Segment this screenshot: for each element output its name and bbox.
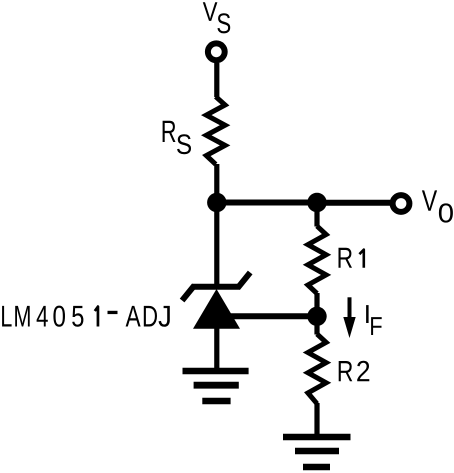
zener D1 cathode bar xyxy=(192,284,240,290)
resistor RS xyxy=(206,97,225,165)
wire VS to RS xyxy=(214,63,219,97)
current arrow IF xyxy=(343,297,355,338)
terminal VO xyxy=(393,195,410,212)
resistor R1 xyxy=(308,226,326,293)
wire zener anode to ground xyxy=(214,328,219,371)
ground (left) xyxy=(183,371,249,401)
label LM4051-ADJ xyxy=(2,306,170,327)
label R2 xyxy=(339,361,370,382)
wire node B to R1 xyxy=(314,203,319,227)
ground (right) xyxy=(283,437,351,467)
label VO xyxy=(422,190,453,222)
resistor R2 xyxy=(308,334,326,404)
wire node A to node B xyxy=(217,200,317,206)
zener D1 right wing xyxy=(240,275,249,286)
wire RS to node A xyxy=(214,164,219,203)
zener D1 left wing xyxy=(184,288,193,299)
label IF xyxy=(366,305,382,335)
node B xyxy=(307,193,326,212)
wire node C to R2 xyxy=(314,316,319,334)
adj line to node C xyxy=(222,313,317,319)
label VS xyxy=(203,2,230,33)
node C xyxy=(307,307,326,326)
zener D1 triangle (anode) xyxy=(193,289,240,329)
wire node A to zener cathode xyxy=(214,203,219,287)
wire R1 to node C xyxy=(314,293,319,316)
terminal VS xyxy=(208,43,225,60)
label R1 xyxy=(339,248,364,268)
label RS xyxy=(163,121,191,155)
node A xyxy=(207,193,226,212)
wire node B to VO terminal xyxy=(317,200,393,206)
wire R2 to ground xyxy=(314,403,319,437)
